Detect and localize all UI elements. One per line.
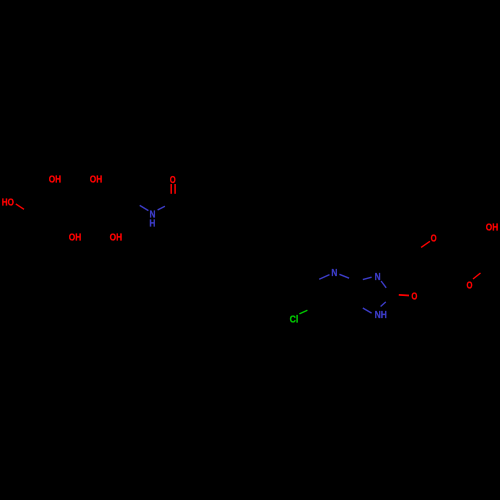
wire HO-C1 half-bond: [16, 204, 24, 209]
wire C-O half-bond (lower right ether): [473, 273, 481, 279]
wire C7a-N1 half-bond: [363, 308, 372, 313]
svg-text:O: O: [411, 291, 417, 303]
svg-text:O: O: [431, 233, 437, 245]
svg-text:N: N: [375, 271, 381, 283]
wire N4-C5 half-bond: [319, 275, 329, 280]
svg-text:OH: OH: [49, 174, 61, 186]
wire N1-C2 half-bond: [381, 302, 386, 307]
svg-text:OH: OH: [90, 174, 102, 186]
svg-text:Cl: Cl: [290, 314, 299, 326]
wire C-O half-bond (upper ether): [421, 241, 430, 247]
wire N3-C2 half-bond: [381, 281, 386, 288]
svg-text:OH: OH: [486, 222, 498, 234]
wire N-C7 half-bond: [158, 206, 165, 210]
svg-text:HO: HO: [2, 196, 14, 208]
wire Cl-C6 half-bond: [299, 310, 307, 314]
svg-text:OH: OH: [110, 232, 123, 244]
wire C3a-N3 half-bond: [363, 277, 372, 279]
svg-text:O: O: [467, 280, 473, 292]
svg-text:NH: NH: [375, 309, 387, 321]
svg-text:N: N: [331, 267, 337, 279]
wire C2-O half-bond: [399, 294, 409, 297]
wire C6-N half-bond: [140, 205, 149, 210]
wire N4-C3a half-bond: [339, 274, 349, 278]
wire C=O double bond half (right line): [174, 184, 176, 194]
svg-text:H: H: [149, 218, 155, 230]
svg-text:OH: OH: [69, 232, 82, 244]
wire C=O double bond half (left line): [170, 184, 172, 194]
